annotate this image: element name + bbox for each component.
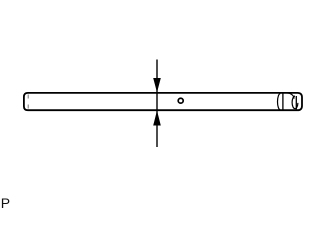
- shaft body outline: [24, 93, 302, 110]
- down arrowhead: [153, 78, 161, 93]
- up arrowhead: [153, 111, 161, 126]
- measurement line vertical: [156, 60, 158, 148]
- left chamfer tick top: [27, 95, 29, 99]
- groove arc A (left half ellipse): [277, 94, 280, 110]
- left chamfer tick bottom: [27, 105, 29, 109]
- groove line B: [295, 96, 297, 109]
- svg-text:P: P: [1, 195, 10, 210]
- oil hole circle: [178, 98, 183, 103]
- groove line A: [282, 93, 284, 110]
- hook arc bottom right: [295, 103, 298, 109]
- saddle curve top: [287, 93, 294, 99]
- groove arc B (left half ellipse): [292, 96, 295, 109]
